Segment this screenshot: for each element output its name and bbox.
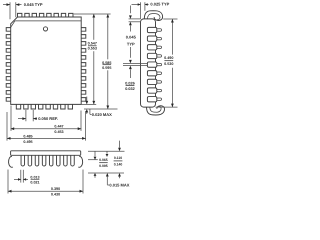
svg-text:0.595: 0.595 — [102, 66, 111, 70]
extension line B from bottom lead tips — [84, 108, 118, 110]
svg-text:0.547: 0.547 — [88, 41, 97, 45]
svg-text:0.140: 0.140 — [114, 162, 123, 166]
svg-text:0.490: 0.490 — [164, 56, 173, 60]
inner chamfer line at pin-1 corner — [11, 21, 15, 27]
dimension 0.015 MAX arrow and leader — [106, 173, 109, 177]
side view right end lead curl — [78, 156, 82, 167]
pin 1 indicator dimple — [43, 27, 47, 31]
lead span extension lines — [163, 18, 177, 20]
dim 0.065/0.095 arrows — [94, 151, 96, 156]
end view package body — [141, 19, 156, 107]
svg-text:0.485: 0.485 — [23, 134, 32, 138]
0.045 TYP outside arrows at top pair — [129, 6, 131, 14]
extension line from top lead tips — [74, 13, 111, 15]
lead cross-section extension lines — [123, 62, 148, 64]
side view left end lead curl — [9, 156, 13, 167]
dimension 0.025 TYP: extension lines — [140, 2, 142, 19]
svg-text:0.530: 0.530 — [164, 62, 173, 66]
extension line from body top L1 — [88, 150, 125, 152]
0.050 REF arrows — [18, 118, 26, 120]
svg-text:0.045: 0.045 — [126, 34, 137, 39]
svg-text:0.026: 0.026 — [125, 81, 135, 85]
svg-text:0.095: 0.095 — [99, 164, 108, 168]
svg-text:0.453: 0.453 — [54, 130, 63, 134]
svg-text:0.050 REF.: 0.050 REF. — [38, 116, 58, 121]
dimension line 0.547/0.553 — [93, 14, 95, 40]
extension line A from body bottom edge — [82, 103, 97, 105]
bottom row lead tabs — [16, 104, 20, 109]
0.026/0.032 outside arrows — [129, 47, 131, 58]
dimension line 0.490/0.530 — [171, 19, 173, 55]
dimension 0.013/0.021 lead width: extension lines — [20, 170, 22, 183]
dimension 0.045 TYP chamfer: extension lines — [9, 2, 11, 19]
dim 0.110/0.140 outside arrows — [119, 141, 121, 148]
svg-text:0.032: 0.032 — [125, 87, 135, 91]
0.025 TYP arrows — [132, 4, 141, 6]
side view J-leads — [21, 155, 25, 166]
dimension 0.390/0.430: extension lines — [7, 170, 9, 194]
svg-text:0.015 MAX: 0.015 MAX — [109, 182, 129, 187]
svg-text:0.020 MAX: 0.020 MAX — [92, 112, 112, 117]
end view bottom lead curl — [147, 106, 165, 115]
svg-text:0.390: 0.390 — [51, 187, 60, 191]
top view package body outline with pin-1 chamfer — [11, 17, 82, 104]
svg-text:0.021: 0.021 — [30, 181, 39, 185]
lead tip width extension lines — [6, 112, 8, 141]
side view package body bar — [11, 151, 81, 156]
svg-text:0.553: 0.553 — [88, 47, 97, 51]
svg-text:0.585: 0.585 — [102, 61, 111, 65]
dimension line 0.447/0.453 — [11, 128, 82, 130]
svg-text:0.025 TYP: 0.025 TYP — [150, 2, 169, 7]
dimension 0.020 MAX: outside arrows — [86, 97, 88, 102]
svg-text:0.447: 0.447 — [54, 125, 63, 129]
right column lead tabs — [81, 28, 86, 32]
svg-text:TYP: TYP — [127, 41, 135, 46]
left column lead tabs — [6, 28, 11, 32]
dimension line 0.585/0.595 — [107, 14, 109, 59]
svg-text:0.110: 0.110 — [114, 156, 122, 160]
dimension 0.045 TYP chamfer: arrows and leader — [3, 4, 10, 6]
svg-text:0.045 TYP: 0.045 TYP — [24, 2, 43, 7]
body width extension lines — [10, 106, 12, 131]
dimension 0.050 REF lead pitch: extension lines — [25, 110, 27, 121]
inner body line along top edge — [15, 20, 81, 22]
svg-text:0.013: 0.013 — [30, 175, 39, 179]
svg-text:0.065: 0.065 — [99, 158, 108, 162]
dimension line 0.390/0.430 — [8, 190, 83, 192]
end view J-leads — [147, 27, 156, 32]
seating plane line L3 — [88, 172, 124, 174]
extension line L2 — [88, 159, 98, 161]
dimension line 0.485/0.495 — [7, 137, 86, 139]
top row lead tabs — [18, 13, 22, 17]
0.013/0.021 arrows — [14, 178, 21, 180]
end view top lead curl — [144, 11, 162, 21]
extension line pair at end view top (body top and lead top) — [129, 18, 141, 20]
svg-text:0.430: 0.430 — [51, 193, 60, 197]
dim marker arrow above 0.065 text — [106, 151, 108, 154]
leader and text 0.020 MAX — [89, 109, 91, 114]
svg-text:0.495: 0.495 — [23, 140, 32, 144]
